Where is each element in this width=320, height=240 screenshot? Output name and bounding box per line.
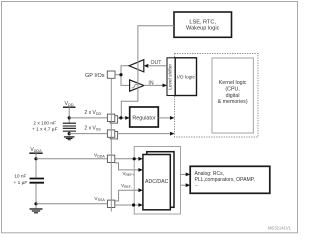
LSE RTC wakeup logic block (174, 12, 232, 37)
VSSA pad (107, 200, 114, 207)
wire pad to node (115, 74, 121, 76)
svg-text:& memories): & memories) (218, 99, 248, 105)
node VDDA on analog domain edge (133, 157, 136, 160)
IN arrowhead (163, 84, 168, 88)
svg-text:+ 1 µF: + 1 µF (13, 180, 27, 186)
VSS pads (2x) (110, 132, 117, 139)
wire ADC to analog block upper (181, 173, 187, 175)
ADC/DAC stacked block back (147, 152, 174, 208)
wire node to output buffer (121, 66, 129, 75)
arrowhead VREF+ into ADC (138, 168, 143, 172)
svg-text:Regulator: Regulator (132, 115, 156, 121)
kernel logic block (212, 58, 253, 133)
analog domain container (134, 147, 180, 215)
wire VREF- branch (115, 190, 139, 201)
arrowhead into regulator (125, 116, 130, 120)
wire node to input buffer (121, 75, 130, 86)
wire VSSA pad to ADC (115, 204, 139, 206)
svg-text:Kernel logic: Kernel logic (219, 80, 247, 86)
VDD supply symbol (63, 101, 76, 118)
regulator block (130, 107, 159, 127)
VDD pads (2x) (110, 116, 117, 123)
svg-text:Level shifter: Level shifter (167, 63, 173, 89)
node VSSA on analog domain edge (132, 203, 135, 206)
capacitors 2x100nF + 1x4.7uF (32, 120, 76, 134)
wire VSSA to pad (36, 203, 107, 205)
node VSSA bottom (34, 202, 37, 205)
VDDA supply symbol (29, 147, 42, 159)
arrowhead VDDA into ADC (138, 157, 143, 161)
wire ADC to analog block lower (181, 184, 187, 186)
node GPIO junction (119, 73, 122, 76)
wire regulator to digital domain (158, 117, 170, 119)
ground VDD (64, 135, 75, 140)
svg-text:+ 1 x 4.7 µF: + 1 x 4.7 µF (32, 126, 58, 132)
OUT wire (148, 65, 167, 67)
wire VREF+ branch (115, 163, 139, 170)
svg-text:...: ... (195, 182, 199, 188)
OUT arrowhead (144, 64, 149, 68)
node VDD bottom (68, 132, 71, 135)
node VDDA top (34, 157, 37, 160)
svg-text:2 x 100 nF: 2 x 100 nF (33, 121, 56, 127)
arrowhead lower into analog block (186, 183, 191, 187)
IN wire (144, 84, 163, 86)
analog peripherals block (190, 166, 270, 193)
I/O logic block (175, 58, 196, 96)
svg-text:(CPU,: (CPU, (225, 86, 239, 92)
wire VDD pads to regulator (118, 117, 126, 119)
svg-text:PLL,comparators, OPAMP,: PLL,comparators, OPAMP, (195, 177, 255, 183)
arrowhead VSS into domain (170, 132, 175, 136)
node VDD top (68, 116, 71, 119)
arrowhead VREF- into ADC (138, 188, 143, 192)
level shifter block (167, 58, 175, 96)
svg-text:Wakeup logic: Wakeup logic (186, 25, 220, 31)
ground VDDA (30, 205, 43, 212)
node VDD rail (119, 116, 122, 119)
wire VSS pads to digital domain (118, 133, 171, 135)
arrowhead VSSA into ADC (138, 203, 143, 207)
digital domain dashed box (175, 54, 258, 138)
ADC/DAC block front (143, 155, 170, 210)
svg-text:GP I/Os: GP I/Os (85, 73, 105, 79)
package pin line (110, 78, 112, 211)
wire VDD to pads (69, 117, 107, 119)
arrowhead regulator output (170, 116, 175, 120)
svg-text:digital: digital (226, 93, 240, 99)
output buffer (129, 60, 144, 72)
GP I/Os pad (107, 71, 115, 78)
svg-text:ADC/DAC: ADC/DAC (145, 179, 169, 185)
input Schmitt trigger buffer (130, 80, 144, 91)
wire VDD rail to LSE block (121, 26, 174, 118)
wire VDDA to pad (36, 158, 107, 160)
capacitor 10nF + 1uF (13, 160, 44, 204)
svg-text:MS32141V1: MS32141V1 (268, 226, 292, 231)
svg-text:I/O logic: I/O logic (177, 74, 195, 80)
svg-text:OUT: OUT (151, 60, 163, 66)
svg-text:10 nF: 10 nF (14, 173, 26, 179)
hysteresis symbol (132, 85, 138, 88)
wire VSS to pads (69, 133, 107, 135)
wire VDDA pad to ADC (115, 158, 139, 160)
arrowhead upper into analog block (186, 173, 191, 177)
svg-text:IN: IN (148, 80, 153, 86)
VDDA pad (107, 155, 114, 162)
